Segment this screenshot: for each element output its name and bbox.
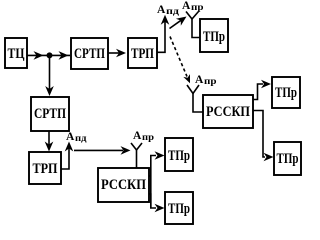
signal arrow Apd to Apr (bottom): [74, 146, 131, 155]
svg-text:СРТП: СРТП: [34, 106, 66, 122]
label A pr right: [195, 74, 217, 87]
block SRTP top: [71, 38, 108, 69]
wire TTs to SRTP with junction: [27, 51, 70, 60]
wire RSSKP bottom to TPr lower: [149, 194, 165, 212]
signal arrow Apd to Apr (top): [170, 17, 187, 29]
block TPr bottom upper: [165, 138, 193, 171]
svg-text:А: А: [66, 131, 75, 143]
svg-text:ТПр: ТПр: [168, 148, 190, 164]
wire junction down to SRTP lower: [45, 55, 54, 96]
block TTs (TV center): [5, 38, 27, 68]
wire RSSKP right to TPr lower: [253, 111, 274, 162]
block TRP top: [128, 38, 157, 68]
wire SRTP lower to TRP lower: [45, 131, 54, 152]
label A pd top: [157, 4, 179, 17]
block SRTP left lower: [31, 97, 69, 131]
label A pr bottom: [133, 130, 154, 143]
block TPr top-right receiver: [200, 19, 228, 52]
svg-text:ТПр: ТПр: [168, 201, 190, 217]
svg-text:ТПр: ТПр: [277, 151, 299, 167]
svg-text:А: А: [157, 4, 166, 16]
wire TRP top to antenna Apd feed: [157, 15, 169, 53]
dashed signal path Apd to Apr (right): [170, 37, 190, 84]
svg-text:РССКП: РССКП: [101, 177, 146, 193]
block TPr right lower: [274, 142, 301, 175]
svg-text:ТЦ: ТЦ: [8, 46, 25, 62]
wire RSSKP bottom to TPr upper: [149, 151, 165, 208]
label A pr top: [182, 0, 204, 13]
block TRP left lower: [29, 152, 61, 184]
svg-text:ТРП: ТРП: [131, 46, 154, 62]
wire TRP lower to antenna Apd feed: [61, 142, 73, 170]
svg-text:пр: пр: [191, 3, 204, 13]
svg-text:А: А: [182, 0, 191, 12]
svg-text:пд: пд: [75, 134, 87, 144]
label A pd bottom: [66, 131, 87, 144]
wire SRTP top to TRP top: [108, 49, 126, 58]
svg-text:ТПр: ТПр: [275, 85, 297, 101]
antenna Apr right: [187, 85, 203, 112]
svg-text:СРТП: СРТП: [74, 46, 105, 62]
svg-text:РССКП: РССКП: [206, 104, 250, 120]
svg-text:пр: пр: [204, 77, 217, 87]
svg-text:пр: пр: [142, 133, 154, 143]
block TPr right upper: [272, 77, 300, 108]
svg-text:ТРП: ТРП: [33, 161, 58, 177]
antenna Apr top: [186, 12, 200, 38]
svg-text:пд: пд: [166, 7, 179, 17]
block RSSKP right: [203, 95, 253, 128]
svg-text:А: А: [195, 74, 204, 86]
svg-text:ТПр: ТПр: [203, 29, 225, 45]
block RSSKP bottom: [98, 168, 149, 202]
antenna Apr bottom: [131, 143, 142, 168]
junction node dot: [47, 52, 53, 58]
wire RSSKP right to TPr upper: [253, 80, 271, 100]
svg-text:А: А: [133, 130, 142, 142]
block TPr bottom lower: [165, 192, 193, 224]
